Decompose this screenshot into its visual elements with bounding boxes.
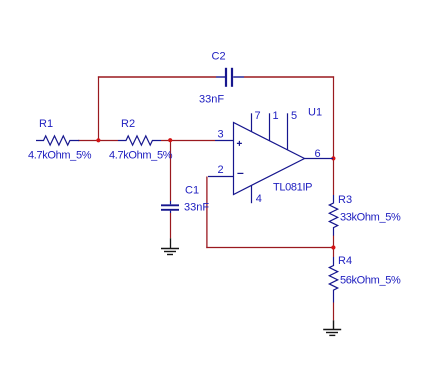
- svg-text:2: 2: [218, 164, 224, 176]
- svg-text:TL081IP: TL081IP: [273, 182, 312, 194]
- svg-text:56kOhm_5%: 56kOhm_5%: [340, 275, 401, 287]
- label C2: [212, 51, 226, 63]
- svg-text:6: 6: [315, 148, 321, 160]
- pin 4 lead: [251, 185, 253, 203]
- svg-text:4.7kOhm_5%: 4.7kOhm_5%: [109, 150, 173, 162]
- svg-text:4: 4: [256, 193, 262, 205]
- svg-text:7: 7: [255, 110, 261, 122]
- svg-text:3: 3: [218, 129, 224, 141]
- pin 1 number: [273, 110, 279, 122]
- capacitor C2: [216, 68, 244, 87]
- op-amp U1 triangle: [234, 123, 305, 195]
- value R3 33kOhm_5%: [340, 212, 401, 224]
- wire: [333, 76, 335, 195]
- wire: [98, 76, 216, 78]
- pin 7 lead: [251, 113, 253, 131]
- node junction R2-C1-pin3: [168, 138, 172, 142]
- label C1: [185, 185, 199, 197]
- pin 1 lead: [269, 113, 271, 141]
- label R2: [121, 118, 135, 130]
- node junction pin6-C2-R3: [331, 156, 335, 160]
- value R4 56kOhm_5%: [340, 275, 401, 287]
- pin 6 number: [315, 148, 321, 160]
- pin 7 number: [255, 110, 261, 122]
- ground under C1: [161, 238, 179, 254]
- svg-text:U1: U1: [308, 107, 322, 119]
- label U1: [308, 107, 322, 119]
- svg-text:5: 5: [291, 110, 297, 122]
- wire: [98, 76, 100, 141]
- pin 2 lead: [208, 176, 234, 178]
- label R1: [39, 118, 53, 130]
- svg-text:33nF: 33nF: [184, 202, 209, 214]
- wire: [170, 140, 172, 201]
- wire: [333, 236, 335, 258]
- wire: [333, 303, 335, 321]
- op-amp plus input marker: [237, 141, 242, 146]
- op-amp minus input marker: [237, 172, 243, 174]
- resistor R2: [118, 136, 161, 145]
- label R4: [338, 255, 352, 267]
- svg-text:1: 1: [273, 110, 279, 122]
- svg-text:R2: R2: [121, 118, 135, 130]
- value R1 4.7kOhm_5%: [28, 150, 92, 162]
- node junction R1-R2-C2: [96, 138, 100, 142]
- pin 4 number: [256, 193, 262, 205]
- capacitor C1: [161, 201, 179, 213]
- value C2 33nF: [199, 94, 224, 106]
- svg-text:C1: C1: [185, 185, 199, 197]
- svg-text:C2: C2: [212, 51, 226, 63]
- pin 2 number: [218, 164, 224, 176]
- svg-text:R4: R4: [338, 255, 352, 267]
- svg-text:33nF: 33nF: [199, 94, 224, 106]
- wire: [244, 76, 334, 78]
- svg-text:4.7kOhm_5%: 4.7kOhm_5%: [28, 150, 92, 162]
- wire: [78, 140, 118, 142]
- svg-text:R1: R1: [39, 118, 53, 130]
- resistor R4: [329, 257, 337, 303]
- wire: [161, 140, 215, 142]
- resistor R1: [36, 136, 79, 145]
- pin 5 lead: [287, 113, 289, 150]
- pin 3 lead: [215, 140, 234, 142]
- label R3: [338, 194, 352, 206]
- node junction R3-R4-feedback: [331, 245, 335, 249]
- svg-text:R3: R3: [338, 194, 352, 206]
- value R2 4.7kOhm_5%: [109, 150, 173, 162]
- part name TL081IP: [273, 182, 312, 194]
- wire: [206, 247, 333, 249]
- pin 6 lead: [305, 158, 334, 160]
- wire: [170, 213, 172, 238]
- value C1 33nF: [184, 202, 209, 214]
- ground under R4: [323, 320, 341, 335]
- pin 3 number: [218, 129, 224, 141]
- wire: [206, 177, 208, 249]
- resistor R3: [329, 195, 337, 236]
- pin 5 number: [291, 110, 297, 122]
- svg-text:33kOhm_5%: 33kOhm_5%: [340, 212, 401, 224]
